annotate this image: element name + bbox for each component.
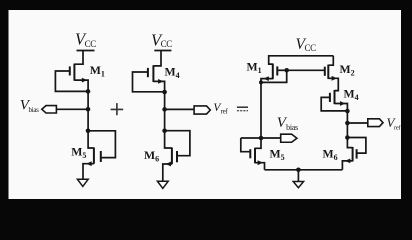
wire gate bus M1-M2 right <box>287 69 325 71</box>
arrow M6 middle source <box>166 162 171 167</box>
wire M6 right gate diode loop <box>347 138 366 154</box>
junction Vref node middle <box>162 107 167 112</box>
transistor M6 right circuit <box>353 147 357 162</box>
wire Vbias node right <box>241 137 281 139</box>
wire M1 left source down to M5 drain <box>74 80 94 148</box>
wire M1 left drain to VCC <box>74 51 83 65</box>
transistor M4 right circuit <box>330 90 335 104</box>
wire M4 middle source down to M6 drain <box>153 81 172 148</box>
wire M6 right source to rail <box>342 161 352 170</box>
transistor M4 middle circuit <box>148 65 154 82</box>
ground left circuit <box>77 179 88 186</box>
wire M6 middle source to ground <box>163 164 172 181</box>
power VCC right rail <box>269 56 334 64</box>
plus sign <box>111 103 124 115</box>
wire M1 right drain down to M5 <box>255 79 273 149</box>
ground middle circuit <box>157 181 168 188</box>
transistor M1 left circuit <box>70 64 75 81</box>
junction M4 right gate-drain node <box>345 109 350 114</box>
arrow M4 right source <box>340 101 345 106</box>
border frame left <box>0 0 9 210</box>
wire Vbias left to node <box>56 108 88 110</box>
wire source rail right circuit <box>265 169 343 171</box>
transistor M2 right circuit <box>325 65 329 79</box>
border frame bottom <box>0 199 412 210</box>
wire M6 middle gate diode loop <box>165 131 190 156</box>
junction gate-drain node M4 middle <box>162 90 167 95</box>
ground right circuit <box>293 182 303 188</box>
wire ground stem right <box>297 170 299 182</box>
port Vbias left input <box>42 106 57 113</box>
paper area <box>9 10 402 199</box>
arrow M6 right source <box>345 159 350 164</box>
power VCC left rail bar <box>77 50 95 52</box>
wire M1 right diode loop <box>261 70 287 82</box>
wire M1 right gate lead <box>277 69 286 71</box>
arrow M1 left source <box>82 78 87 83</box>
wire M5 right gate diode loop <box>241 138 251 152</box>
equals sign <box>237 106 248 108</box>
transistor M1 right circuit <box>273 64 278 80</box>
junction M6 gate node middle <box>162 128 167 133</box>
wire M5 right source to rail <box>255 163 265 170</box>
wire Vref right <box>347 122 367 124</box>
arrow M5 left source <box>86 161 91 166</box>
wire M4 middle gate diode loop <box>133 72 165 92</box>
arrow M5 right source <box>258 160 263 165</box>
wire M4 middle drain to VCC <box>153 51 161 66</box>
wire Vref middle <box>165 108 195 110</box>
wire M4 right gate diode loop <box>321 97 347 111</box>
arrow M4 middle source <box>158 79 163 84</box>
power VCC middle rail bar <box>154 50 171 52</box>
transistor M6 middle circuit <box>172 148 177 165</box>
junction gate bus node right <box>284 68 289 73</box>
border frame right <box>401 0 412 210</box>
transistor M5 right circuit <box>250 148 255 164</box>
junction Vref node right <box>345 121 350 126</box>
junction M1 right drain-loop node <box>259 80 263 84</box>
arrow M2 right source <box>332 76 337 81</box>
arrow M1 right source <box>263 76 268 81</box>
wire M4 right source down to M6 <box>335 104 353 148</box>
junction M6 gate node right <box>345 135 350 140</box>
port Vref right output <box>368 119 383 127</box>
junction Vbias node left <box>86 107 91 112</box>
junction ground node right <box>296 168 301 173</box>
wire M2 right drain to VCC <box>328 56 333 65</box>
junction M5 gate node left <box>86 129 91 134</box>
wire M5 left source to ground <box>83 164 94 180</box>
wire M2 right source down to M4 <box>328 78 338 90</box>
wire M5 left gate diode loop <box>88 131 115 158</box>
port Vbias right input <box>281 134 297 142</box>
transistor M5 left circuit <box>94 148 101 164</box>
junction gate-drain node M1 left <box>86 89 91 94</box>
border frame top <box>0 0 412 10</box>
wire M1 left gate diode loop <box>55 71 88 91</box>
port Vref middle output <box>194 106 210 114</box>
junction Vbias node right <box>259 136 264 141</box>
